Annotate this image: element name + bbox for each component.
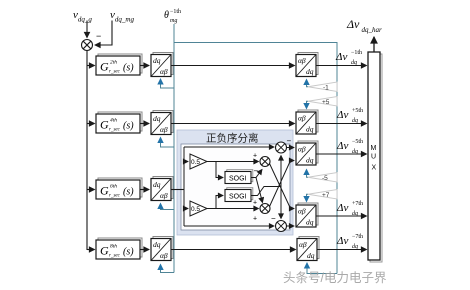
wire bus to G2 <box>87 123 95 125</box>
theta branch to right rail <box>174 43 337 274</box>
svg-text:αβ: αβ <box>160 251 168 260</box>
svg-text:−: − <box>254 167 259 176</box>
svg-text:r_sec: r_sec <box>109 194 121 199</box>
wire bus to G3 <box>87 189 95 191</box>
svg-text:G: G <box>100 60 109 74</box>
svg-text:r_sec: r_sec <box>109 128 121 133</box>
svg-text:vdq_g: vdq_g <box>73 9 92 24</box>
svg-text:αβ: αβ <box>298 207 306 216</box>
svg-text:+5th: +5th <box>352 108 363 114</box>
SOGI block 2 <box>225 188 253 202</box>
wire U1 to MUX <box>316 65 367 67</box>
theta wire U3 <box>303 169 309 178</box>
svg-text:SOGI: SOGI <box>229 176 247 183</box>
svg-text:(s): (s) <box>123 121 134 132</box>
transform block U1 ab/dq <box>296 53 318 77</box>
wire gain lower to sum2 <box>207 208 259 210</box>
svg-text:αβ: αβ <box>160 125 168 134</box>
wire row3 into separator <box>171 189 184 191</box>
svg-text:G: G <box>100 118 109 132</box>
svg-text:dq: dq <box>352 118 358 124</box>
wire U4 to MUX <box>316 215 367 217</box>
svg-text:(s): (s) <box>123 63 134 74</box>
label dv -1th <box>335 50 362 66</box>
svg-text:G: G <box>100 184 109 198</box>
wire SOGI1 to sum2 <box>256 178 263 203</box>
wire row2 to U2 <box>171 123 295 125</box>
wire S2 cross to U3 <box>270 161 295 207</box>
svg-text:2th: 2th <box>110 60 117 66</box>
svg-text:(s): (s) <box>123 187 134 198</box>
svg-text:M: M <box>371 145 377 152</box>
label dv_dq_har <box>346 17 382 34</box>
svg-text:Δv: Δv <box>346 17 360 31</box>
svg-text:dq: dq <box>306 67 314 76</box>
wire G4 to dq block row4 <box>140 249 149 251</box>
transform block U3 ab/dq <box>296 141 318 165</box>
svg-text:Δv: Δv <box>335 51 347 63</box>
wire SOGI2 to multiplier rail <box>251 187 281 196</box>
svg-text:6th: 6th <box>110 184 117 190</box>
svg-text:−1th: −1th <box>351 50 362 56</box>
separator input bus <box>183 147 185 226</box>
svg-text:-5: -5 <box>322 175 328 182</box>
svg-text:−5th: −5th <box>352 139 363 145</box>
theta wire row1 <box>157 78 174 88</box>
svg-text:Δv: Δv <box>336 140 348 152</box>
transform block U4 ab/dq <box>296 203 318 227</box>
gain 0.5 upper <box>190 154 207 169</box>
multiplier M2 <box>271 214 287 232</box>
MUX block <box>368 52 382 262</box>
input bus wire <box>86 51 88 251</box>
svg-text:(s): (s) <box>123 247 134 258</box>
svg-text:dq: dq <box>306 125 314 134</box>
filter block G3 6th <box>96 178 142 199</box>
sum junction S1 <box>253 153 270 176</box>
svg-text:+: + <box>253 200 257 207</box>
wire to gain 0.5 upper <box>184 161 188 163</box>
svg-text:dq: dq <box>306 218 314 227</box>
svg-text:dq: dq <box>351 60 357 66</box>
wire v_dq_mg to summer <box>95 21 112 46</box>
wire G2 to dq block row2 <box>140 123 149 125</box>
svg-text:dq: dq <box>352 244 358 250</box>
wire row4 to U5 <box>171 249 296 251</box>
svg-text:−1th: −1th <box>170 9 181 15</box>
svg-text:-1: -1 <box>323 85 329 92</box>
wire S1 cross to U4 <box>270 164 295 209</box>
svg-text:−7th: −7th <box>352 234 363 240</box>
transform block dq/ab row4 <box>151 237 173 261</box>
transform block dq/ab row2 <box>151 111 173 135</box>
filter block G1 2th <box>96 54 142 75</box>
svg-text:dq: dq <box>307 251 315 260</box>
svg-text:dq: dq <box>153 180 161 189</box>
summing junction <box>82 40 93 51</box>
svg-text:8th: 8th <box>110 244 117 250</box>
svg-text:dq: dq <box>153 114 161 123</box>
wire branch to SOGI1 <box>216 162 223 178</box>
theta wire row4 <box>157 264 174 273</box>
theta gain -1 <box>308 82 337 92</box>
wire branch to SOGI2 <box>216 196 223 209</box>
wire gain upper to sum1 <box>207 161 259 163</box>
wire vertical to multiplier M2 <box>280 187 282 219</box>
wire bus to G1 <box>87 65 95 67</box>
SOGI block 1 <box>225 170 253 184</box>
wire G1 to dq block row1 <box>140 65 149 67</box>
svg-text:0.5: 0.5 <box>191 159 200 166</box>
sequence separation inner box <box>181 144 290 230</box>
svg-text:0.5: 0.5 <box>191 206 200 213</box>
svg-text:−: − <box>287 137 292 146</box>
transform block dq/ab row3 <box>151 177 173 201</box>
wire direct top path to multiplier M1 <box>184 146 274 148</box>
wire direct bottom path to multiplier M2 <box>184 225 274 227</box>
filter block G4 8th <box>96 238 142 259</box>
svg-text:Δv: Δv <box>336 202 348 214</box>
svg-text:dq_har: dq_har <box>362 26 383 34</box>
svg-text:X: X <box>372 165 377 172</box>
theta wire U2 <box>303 101 309 109</box>
svg-text:dq: dq <box>352 211 358 217</box>
svg-text:+5: +5 <box>322 99 330 106</box>
svg-text:dq: dq <box>306 156 314 165</box>
label dv -5th <box>336 139 363 155</box>
gain 0.5 lower <box>190 201 207 216</box>
svg-text:θ: θ <box>164 10 169 21</box>
theta rail vertical <box>173 24 175 273</box>
svg-text:−: − <box>96 31 101 41</box>
filter block G2 4th <box>96 112 142 133</box>
theta gain +5 <box>308 97 337 107</box>
svg-text:r_sec: r_sec <box>109 254 121 259</box>
svg-text:αβ: αβ <box>160 67 168 76</box>
wire to gain 0.5 lower <box>184 208 188 210</box>
wire vertical to multiplier M1 <box>280 156 282 187</box>
svg-text:r_sec: r_sec <box>109 70 121 75</box>
svg-text:dq: dq <box>153 240 161 249</box>
svg-text:+: + <box>253 216 257 223</box>
svg-text:U: U <box>371 154 376 161</box>
label dv +7th <box>336 201 363 217</box>
svg-text:+: + <box>253 153 257 160</box>
theta wire U1 <box>303 79 309 87</box>
label dv +5th <box>336 108 363 124</box>
wire bus to G4 <box>87 249 95 251</box>
svg-text:SOGI: SOGI <box>229 194 247 201</box>
svg-text:αβ: αβ <box>298 56 306 65</box>
wire U5 to MUX <box>317 249 367 251</box>
sequence separation outer box <box>177 130 293 235</box>
wire U3 to MUX <box>316 153 367 155</box>
theta gain +7 <box>308 190 337 200</box>
wire SOGI1 to sum1 <box>251 170 262 178</box>
wire M2 to U4 <box>287 225 295 227</box>
transform block U2 ab/dq <box>296 110 318 134</box>
svg-text:正负序分离: 正负序分离 <box>206 132 259 145</box>
theta gain -5 <box>308 173 337 183</box>
wire row1 to U1 <box>171 65 295 67</box>
transform block dq/ab row1 <box>151 53 173 77</box>
svg-text:+7th: +7th <box>352 201 363 207</box>
transform block U5 ab/dq <box>297 237 319 261</box>
svg-text:αβ: αβ <box>299 240 307 249</box>
svg-text:αβ: αβ <box>160 191 168 200</box>
svg-text:αβ: αβ <box>298 145 306 154</box>
wire M1 to U3 <box>287 147 295 149</box>
wire G3 to dq block row3 <box>140 189 149 191</box>
wire v_dq_g to summer <box>86 21 88 38</box>
theta wire row3 <box>157 203 174 210</box>
svg-text:mg: mg <box>170 18 177 24</box>
svg-text:dq: dq <box>153 56 161 65</box>
svg-text:−: − <box>271 214 276 223</box>
svg-text:Δv: Δv <box>336 109 348 121</box>
svg-text:G: G <box>100 244 109 258</box>
svg-text:αβ: αβ <box>298 114 306 123</box>
theta wire row2 <box>157 137 174 148</box>
wire U2 to MUX <box>316 123 367 125</box>
svg-text:Δv: Δv <box>336 235 348 247</box>
theta wire U5 <box>304 262 337 274</box>
multiplier M1 <box>276 137 292 154</box>
label dv -7th <box>336 234 363 250</box>
theta wire U4 <box>303 194 309 202</box>
svg-text:+7: +7 <box>322 192 330 199</box>
svg-text:4th: 4th <box>110 117 117 124</box>
svg-text:头条号/电力电子界: 头条号/电力电子界 <box>283 271 387 285</box>
svg-text:dq: dq <box>352 149 358 155</box>
wire MUX output <box>373 37 375 52</box>
sum junction S2 <box>253 200 270 223</box>
svg-text:vdq_mg: vdq_mg <box>110 9 134 24</box>
